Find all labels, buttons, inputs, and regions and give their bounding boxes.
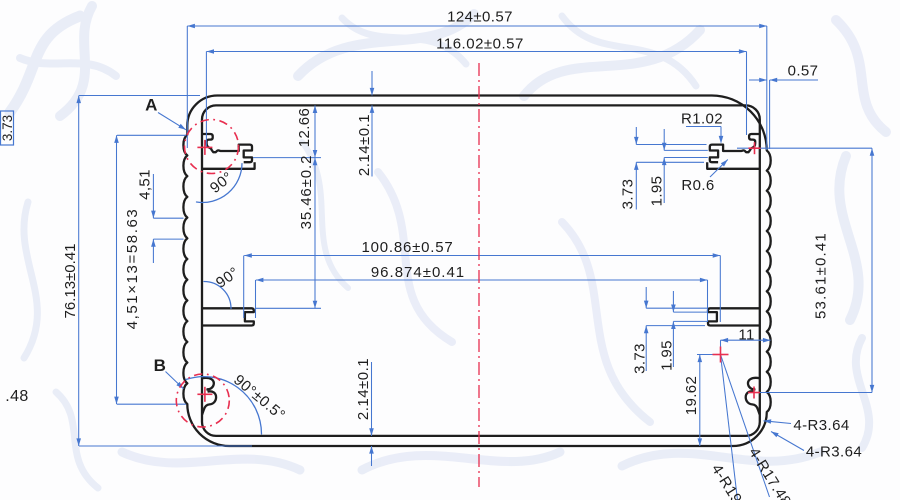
svg-text:53.61±0.41: 53.61±0.41: [812, 232, 829, 319]
svg-text:124±0.57: 124±0.57: [447, 9, 513, 26]
svg-text:76.13±0.41: 76.13±0.41: [62, 244, 79, 319]
svg-text:A: A: [145, 96, 158, 115]
svg-text:12.66: 12.66: [296, 108, 313, 148]
svg-text:35.46±0.2: 35.46±0.2: [298, 155, 315, 230]
svg-text:R0.6: R0.6: [681, 177, 714, 194]
svg-text:11: 11: [738, 327, 754, 344]
svg-text:2.14±0.1: 2.14±0.1: [355, 358, 372, 420]
svg-text:96.874±0.41: 96.874±0.41: [371, 264, 465, 281]
svg-text:116.02±0.57: 116.02±0.57: [436, 36, 524, 53]
svg-text:1.95: 1.95: [658, 340, 675, 371]
svg-text:4,51×13=58.63: 4,51×13=58.63: [124, 208, 141, 330]
svg-text:100.86±0.57: 100.86±0.57: [361, 239, 453, 256]
svg-text:B: B: [154, 356, 167, 375]
svg-text:.48: .48: [5, 388, 28, 405]
svg-text:4-R3.64: 4-R3.64: [806, 444, 862, 461]
svg-text:4-R3.64: 4-R3.64: [793, 417, 849, 434]
svg-text:2.14±0.1: 2.14±0.1: [356, 114, 373, 176]
svg-text:1.95: 1.95: [648, 176, 665, 207]
svg-text:0.57: 0.57: [788, 63, 819, 80]
svg-text:3.73: 3.73: [0, 115, 15, 141]
svg-text:4,51: 4,51: [136, 169, 153, 200]
svg-text:R1.02: R1.02: [681, 111, 723, 128]
svg-text:19.62: 19.62: [683, 376, 700, 416]
svg-text:3.73: 3.73: [619, 179, 636, 210]
svg-text:3.73: 3.73: [631, 343, 648, 374]
